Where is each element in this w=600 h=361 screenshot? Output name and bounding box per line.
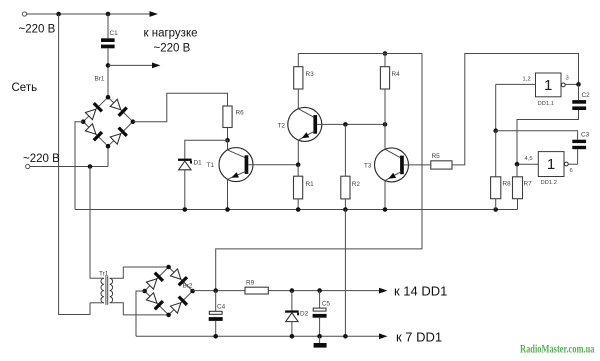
- junction dot T3 emitter/rail: [383, 207, 388, 212]
- wire T1 emitter to ground rail: [227, 179, 229, 210]
- bridge Br1 arm left-top: [83, 97, 108, 122]
- wire node to R7: [516, 164, 518, 177]
- svg-text:T2: T2: [278, 123, 286, 130]
- wire supply to R3: [297, 54, 299, 67]
- junction dot Br2 left vertex: [142, 289, 147, 294]
- junction dot Br1 bottom vertex: [106, 144, 111, 149]
- wire DD1.2 output: [569, 163, 578, 165]
- wire mains to C1: [107, 14, 109, 38]
- terminal mains input bottom: [26, 164, 30, 168]
- wire DD1.1 input down: [495, 84, 497, 130]
- wire R9 to к 14 DD1 arrow: [268, 288, 387, 294]
- wire mains top line: [27, 13, 150, 15]
- wire node to C5: [319, 291, 321, 309]
- wire T3 emitter to ground rail: [384, 180, 386, 209]
- svg-text:C2: C2: [582, 92, 591, 99]
- junction dot Br2 bottom vertex: [166, 313, 171, 318]
- svg-text:R6: R6: [236, 110, 245, 117]
- svg-text:к 7 DD1: к 7 DD1: [396, 330, 442, 345]
- transformer Tr1 core: [106, 276, 108, 305]
- capacitor C2: [572, 100, 586, 110]
- wire node to R2: [344, 124, 346, 176]
- wire D2 to bottom rail: [291, 322, 293, 337]
- junction dot mains top / transformer primary: [56, 12, 61, 17]
- ground symbol: [314, 336, 327, 347]
- bridge Br1 arm top-right: [108, 97, 133, 122]
- svg-text:C5: C5: [322, 301, 331, 308]
- wire Br1 plus to R6: [133, 93, 228, 121]
- svg-text:R2: R2: [352, 181, 361, 188]
- junction dot R4 / T2 base / T3 collector: [383, 122, 388, 127]
- svg-text:RadioMaster.com.ua: RadioMaster.com.ua: [520, 342, 595, 356]
- diode Br2 upper-right: [170, 268, 188, 286]
- svg-text:6: 6: [570, 168, 573, 174]
- svg-text:Сеть: Сеть: [12, 82, 38, 94]
- svg-text:3: 3: [566, 76, 569, 82]
- zener diode D1: [178, 159, 192, 170]
- electrolytic capacitor C4: [209, 311, 223, 321]
- svg-text:T3: T3: [364, 163, 372, 170]
- diode Br2 upper-left: [146, 272, 164, 290]
- wire main ground rail: [75, 209, 518, 211]
- wire T1 base to T2 emitter node: [248, 164, 298, 166]
- wire node to D2: [291, 291, 293, 311]
- svg-text:R4: R4: [392, 71, 401, 78]
- wire DD1.1 output: [566, 83, 579, 85]
- wire R3 to T2 collector: [297, 89, 299, 109]
- wire mains pole1 to Tr1 primary bottom: [59, 14, 90, 315]
- junction dot R8/rail: [493, 207, 498, 212]
- svg-text:D1: D1: [194, 160, 203, 167]
- transformer Tr1 primary winding: [101, 278, 104, 303]
- capacitor C1: [101, 38, 115, 48]
- junction dot mains top / C1: [106, 12, 111, 17]
- transistor T3: [375, 148, 409, 182]
- wire supply rail down to rectifier Br2 output: [216, 54, 422, 291]
- junction dot R6 / D1 / T1 collector: [225, 138, 230, 143]
- wire node to R1: [297, 165, 299, 177]
- wire R6 to node: [227, 128, 229, 141]
- junction dot DD1.1 in / R8 / C3: [493, 128, 498, 133]
- wire C4 to bottom rail: [215, 321, 217, 336]
- wire supply rail top: [298, 53, 422, 55]
- svg-text:1: 1: [544, 77, 552, 94]
- junction dot Br2 right vertex: [190, 289, 195, 294]
- resistor R2: [341, 176, 350, 199]
- wire primary bottom lead: [90, 302, 104, 304]
- wire ground rail to bottom rail: [344, 210, 346, 337]
- junction dot Br2 plus / C4 / supply riser: [213, 288, 218, 293]
- wire Br2 minus to bottom rail: [136, 291, 145, 336]
- wire D1 to ground rail: [184, 170, 186, 210]
- junction dot T1 emitter/rail: [225, 207, 230, 212]
- svg-text:R7: R7: [524, 181, 533, 188]
- arrow to load bottom: [108, 63, 161, 69]
- bridge Br2 arm left-top: [145, 267, 169, 291]
- svg-text:R5: R5: [432, 153, 441, 160]
- svg-text:4,5: 4,5: [525, 156, 533, 162]
- wire node to C3: [496, 131, 578, 140]
- wire R8 to ground rail: [495, 199, 497, 210]
- bridge Br2 arm left-bottom: [145, 291, 169, 315]
- wire secondary top to Br2: [110, 267, 169, 278]
- junction dot Br2 top vertex: [166, 265, 171, 270]
- svg-text:Вr1: Вr1: [95, 76, 105, 83]
- wire R4 to T3 collector: [384, 89, 386, 150]
- svg-text:R8: R8: [503, 181, 512, 188]
- junction dot supply / R4: [383, 51, 388, 56]
- svg-text:~220 В: ~220 В: [154, 43, 191, 55]
- resistor R4: [380, 67, 389, 89]
- junction dot R1/rail: [296, 207, 301, 212]
- wire C1 to bridge Br1: [107, 48, 109, 97]
- junction dot T2 base / R2: [343, 122, 348, 127]
- logic gate U1 DD1.1: [536, 73, 566, 97]
- wire Br1 minus to ground rail: [75, 122, 83, 210]
- junction dot Br1 left vertex: [81, 119, 86, 124]
- diode Br1 upper-right: [110, 99, 128, 117]
- wire bottom rail к 7 DD1: [136, 333, 388, 339]
- wire node to C4: [215, 291, 217, 312]
- bridge Br1 arm bottom-right: [108, 122, 133, 147]
- junction dot DD1.1 out / C2 / R5 net: [576, 82, 581, 87]
- svg-text:C4: C4: [217, 303, 226, 310]
- resistor R8: [491, 177, 501, 199]
- logic gate U2 DD1.2: [538, 152, 568, 177]
- transistor T1: [219, 148, 253, 182]
- electrolytic capacitor C5: [313, 308, 327, 318]
- junction dot Br1 top vertex: [106, 95, 111, 100]
- wire C2 to DD1.2 input node: [517, 110, 579, 164]
- svg-text:Вr2: Вr2: [183, 282, 193, 289]
- junction dot DD1.2 in / R7 / C2: [515, 162, 520, 167]
- resistor R6: [223, 106, 232, 128]
- svg-text:DD1.2: DD1.2: [541, 180, 557, 186]
- transformer Tr1 secondary winding: [110, 278, 113, 303]
- diode Br2 lower-right: [170, 295, 188, 313]
- svg-text:к 14 DD1: к 14 DD1: [394, 284, 447, 299]
- resistor R1: [294, 176, 303, 199]
- junction dot mains bottom / primary top: [88, 164, 93, 169]
- junction dot R2/rail: [343, 207, 348, 212]
- wire R1 to ground rail: [297, 199, 299, 210]
- arrow to load top: [150, 11, 159, 17]
- wire DD1.2 input: [517, 163, 538, 165]
- wire C5 to bottom rail: [319, 318, 321, 337]
- wire T2 emitter to node: [297, 140, 299, 165]
- junction dot Br1 right vertex: [131, 119, 136, 124]
- terminal mains input top: [22, 12, 26, 16]
- resistor R9: [245, 287, 268, 294]
- wire R2 to ground rail: [344, 199, 346, 210]
- junction dot C5/bottom rail: [317, 334, 322, 339]
- svg-text:D2: D2: [300, 310, 309, 317]
- wire R5 to DD1.1 output: [452, 54, 579, 165]
- svg-text:Tr1: Tr1: [99, 271, 109, 278]
- resistor R3: [294, 67, 303, 89]
- diode Br2 lower-left: [146, 292, 164, 310]
- wire to Br1 bottom vertex: [107, 146, 109, 166]
- wire T3 base to R5: [404, 164, 431, 166]
- wire to C2: [578, 84, 580, 100]
- junction dot C5 top: [317, 288, 322, 293]
- junction dot C4/bottom rail: [213, 334, 218, 339]
- bridge Br1 arm left-bottom: [83, 122, 108, 147]
- junction dot D2 top: [290, 288, 295, 293]
- transistor T2: [288, 107, 322, 141]
- wire secondary bottom to Br2: [110, 303, 169, 315]
- svg-text:T1: T1: [207, 162, 215, 169]
- bridge Br2 arm bottom-right: [169, 291, 193, 315]
- wire DD1.1 input: [496, 83, 536, 85]
- bridge Br2 arm top-right: [169, 267, 193, 291]
- wire Br2 plus line: [193, 290, 245, 292]
- resistor R5: [431, 161, 452, 169]
- diode Br1 upper-left: [85, 102, 103, 120]
- junction dot ground link/bottom rail: [343, 334, 348, 339]
- diode Br1 lower-left: [85, 123, 103, 141]
- wire node to D1: [185, 140, 228, 158]
- svg-text:~220 В: ~220 В: [23, 153, 60, 165]
- junction dot D1/rail: [183, 207, 188, 212]
- svg-text:R3: R3: [306, 71, 315, 78]
- junction dot C1 out / load tap: [106, 63, 111, 68]
- wire mains bottom line: [30, 166, 108, 168]
- diode Br1 lower-right: [110, 126, 128, 144]
- zener diode D2: [285, 310, 299, 321]
- svg-text:R9: R9: [246, 280, 255, 287]
- junction dot D2/bottom rail: [290, 334, 295, 339]
- wire T2 base line: [317, 123, 385, 125]
- resistor R7: [513, 177, 523, 199]
- wire R7 to ground rail: [517, 199, 519, 210]
- svg-text:C1: C1: [110, 30, 119, 37]
- capacitor C3: [572, 140, 586, 150]
- svg-text:к нагрузке: к нагрузке: [144, 28, 198, 40]
- wire T1 collector: [227, 140, 229, 150]
- junction dot T2 emitter / T1 base / R1: [296, 162, 301, 167]
- svg-text:C3: C3: [581, 132, 590, 139]
- wire supply to R4: [384, 54, 386, 67]
- wire DD1.2 output to C3 bottom: [577, 149, 579, 164]
- wire node to R8: [495, 131, 497, 177]
- svg-text:1,2: 1,2: [523, 77, 531, 83]
- wire to Tr1 primary top: [89, 167, 91, 279]
- svg-text:1: 1: [547, 156, 555, 173]
- svg-text:DD1.1: DD1.1: [538, 101, 554, 107]
- svg-text:~220 В: ~220 В: [19, 24, 56, 36]
- svg-text:R1: R1: [306, 181, 315, 188]
- wire primary top lead: [90, 277, 104, 279]
